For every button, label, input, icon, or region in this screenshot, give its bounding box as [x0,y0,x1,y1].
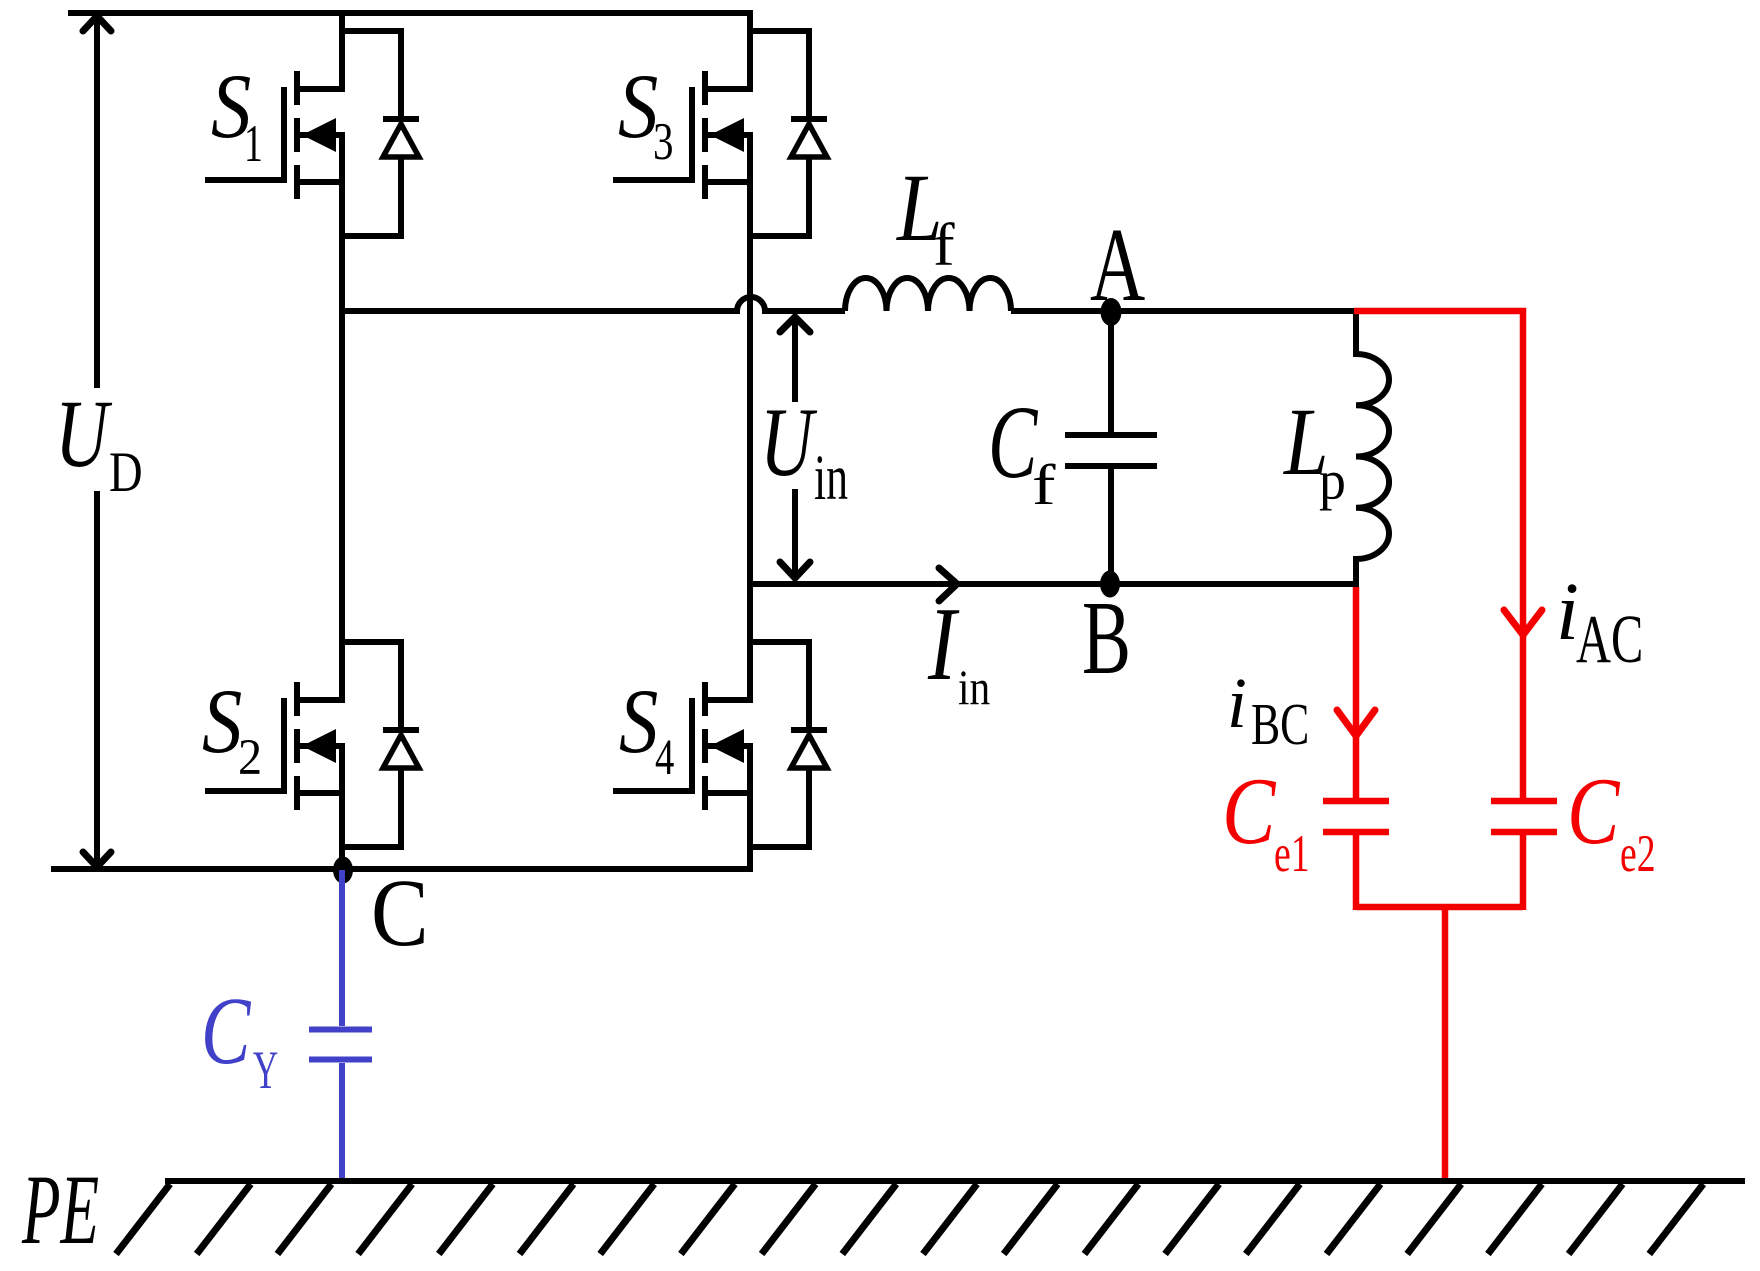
current arrow iAC [1504,610,1542,635]
voltage arrow Uin [780,317,810,578]
wire: red earth tap [1442,907,1449,1181]
svg-text:B: B [1082,580,1131,696]
svg-text:e1: e1 [1274,825,1310,883]
diode D1 [339,28,419,239]
svg-text:2: 2 [238,730,262,786]
svg-text:BC: BC [1251,691,1309,757]
transistor S1 [205,71,345,199]
capacitor Ce1 [1323,801,1389,910]
transistor S3 [613,71,753,199]
wire: right leg upper [747,13,753,92]
wire: B rail [747,581,1358,587]
diode D4 [747,639,827,850]
svg-text:e2: e2 [1620,825,1656,883]
svg-text:I: I [927,586,959,702]
node B [1100,571,1120,598]
svg-text:U: U [55,380,112,487]
wire: left leg middle [339,132,345,703]
svg-text:PE: PE [21,1154,99,1265]
svg-text:Y: Y [253,1040,278,1100]
wire: DC+ top rail [68,10,753,16]
svg-text:S: S [202,670,242,772]
wire: A rail [1011,308,1358,314]
wire: right leg middle [747,132,753,703]
voltage arrow UD [83,16,111,867]
diode D2 [339,639,419,850]
current arrow iBC [1337,710,1375,736]
capacitor Cf [1065,311,1157,584]
svg-text:C: C [371,859,429,966]
svg-text:i: i [1227,663,1247,743]
diode D3 [747,28,827,239]
inductor Lp [1356,311,1389,587]
node C [333,857,353,884]
transistor S4 [613,682,753,810]
wire: red A-rail to Ce2 [1354,311,1523,798]
svg-text:3: 3 [653,113,674,171]
svg-text:C: C [201,977,252,1084]
svg-text:C: C [1222,758,1277,864]
transistor S2 [205,682,345,810]
svg-text:C: C [1567,758,1621,864]
svg-text:S: S [619,670,658,772]
svg-text:f: f [1032,454,1057,517]
wire: bridge output A-side with crossover hump [339,297,845,311]
svg-text:A: A [1090,207,1145,323]
svg-text:in: in [814,442,848,514]
svg-text:D: D [109,441,143,504]
wire: left leg upper [339,13,345,92]
inductor Lf [845,278,1011,311]
svg-text:p: p [1319,451,1346,512]
svg-text:C: C [988,384,1038,500]
svg-text:1: 1 [244,115,263,173]
wire: red B to Ce1 [1353,587,1360,798]
label Ce1 (red) [1222,758,1656,883]
svg-text:AC: AC [1576,601,1643,677]
node A [1101,298,1122,326]
wire: left leg lower [339,743,345,872]
svg-text:f: f [933,212,956,279]
current arrow Iin [939,568,957,601]
wire: DC- bottom rail [51,866,753,872]
red network [1323,311,1557,1181]
svg-text:U: U [760,389,818,497]
svg-text:in: in [958,659,990,715]
label CY (blue) [201,977,278,1100]
wire: red bottom bus [1356,904,1523,911]
ground PE [116,1181,1745,1254]
capacitor Ce2 [1491,801,1557,910]
capacitor CY (blue) [309,870,372,1181]
wire: right leg lower [747,743,753,870]
svg-text:4: 4 [655,730,674,786]
